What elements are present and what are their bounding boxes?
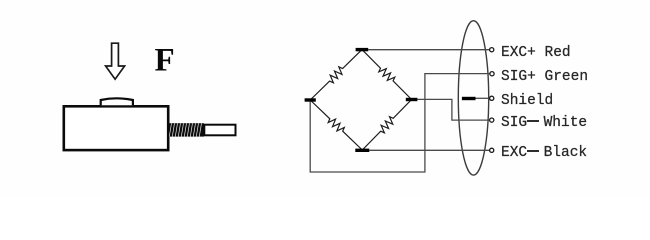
label Shield	[501, 94, 553, 109]
label SIG- White	[501, 116, 587, 131]
wire EXC+ (top node to terminal)	[368, 49, 490, 51]
load cell button cap	[101, 98, 133, 105]
label EXC- Black	[501, 146, 587, 161]
node bar right	[406, 98, 418, 101]
resistor R4 (bottom-right bridge arm)	[362, 100, 411, 151]
label SIG+ Green	[501, 70, 588, 85]
node bar left	[305, 98, 316, 101]
wire SIG+ (left node around bottom to terminal)	[310, 74, 490, 172]
force arrow	[106, 43, 125, 79]
node bar bottom (EXC-)	[355, 149, 369, 152]
terminal Shield	[490, 96, 494, 100]
terminal EXC+	[490, 48, 494, 52]
resistor R3 (bottom-left bridge arm)	[310, 100, 362, 150]
load cell body	[64, 106, 168, 150]
wire shield (bar to terminal)	[476, 97, 490, 99]
svg-text:F: F	[155, 42, 175, 78]
terminal SIG-	[490, 118, 494, 122]
resistor R2 (top-right bridge arm)	[362, 50, 412, 100]
wire SIG- (right node to terminal)	[417, 99, 489, 120]
cable cross-section ellipse	[458, 21, 488, 175]
node bar top (EXC+)	[356, 48, 369, 51]
terminal EXC-	[490, 148, 494, 152]
wire EXC- (bottom node to terminal)	[369, 149, 489, 151]
cable end	[204, 125, 235, 136]
threaded connector	[169, 123, 204, 136]
terminal SIG+	[490, 72, 494, 76]
shield conductor bar	[462, 97, 476, 100]
resistor R1 (top-left bridge arm)	[310, 50, 362, 100]
label EXC+ Red	[501, 46, 571, 61]
